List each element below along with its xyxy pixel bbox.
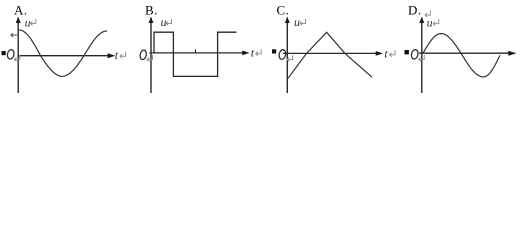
svg-text:t: t — [115, 48, 119, 62]
svg-text:B.: B. — [145, 3, 158, 18]
svg-text:t: t — [251, 45, 255, 59]
svg-text:t: t — [384, 47, 388, 61]
svg-text:D.: D. — [408, 3, 422, 18]
svg-text:C.: C. — [277, 3, 290, 18]
svg-text:u: u — [294, 15, 300, 29]
svg-text:u: u — [25, 16, 31, 30]
svg-text:u: u — [161, 15, 167, 29]
svg-text:u: u — [427, 15, 433, 29]
